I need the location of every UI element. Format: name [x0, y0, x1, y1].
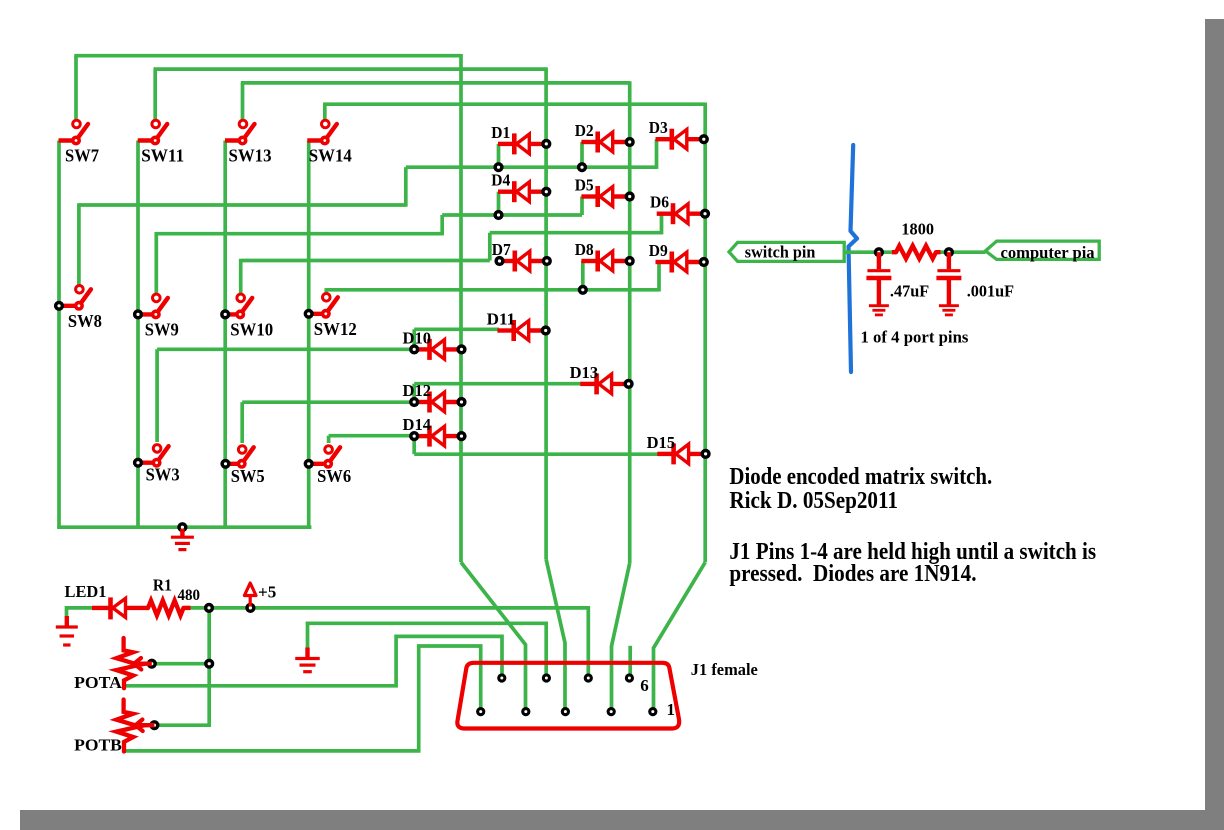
wire D7 to D6 link vertical	[488, 233, 492, 261]
wire SW10 row horizontal to D7	[241, 259, 490, 263]
wire top horizontal from SW11	[154, 67, 547, 71]
J1 pin 7	[542, 673, 551, 682]
svg-text:D14: D14	[403, 415, 432, 434]
junction POTA wiper to R1 column	[204, 659, 214, 669]
wire R1 to +5 rail and J1 pin 8 drop	[189, 608, 588, 679]
wire diagonal fan to J1 pin 3	[546, 559, 565, 712]
svg-text:480: 480	[178, 587, 201, 604]
junction POTA wiper node	[147, 659, 157, 669]
diode D6	[650, 193, 710, 225]
svg-text:D8: D8	[575, 240, 594, 259]
wire column D1/D7/D11 cathodes	[544, 67, 548, 559]
diode D15	[647, 433, 711, 465]
diode D3	[649, 118, 709, 150]
wire SW12 row horizontal to D8 D9	[326, 288, 659, 292]
junction D1 riser on row 1	[493, 162, 503, 172]
wire SW3 row horizontal to D10	[157, 347, 414, 351]
ground of LED1	[56, 616, 78, 645]
J1 pin 6	[625, 673, 634, 682]
diode D2	[575, 121, 635, 153]
POTA wiper arrow	[134, 658, 152, 670]
diode D9	[649, 241, 709, 273]
potentiometer POTA	[116, 638, 139, 688]
resistor 1800	[892, 250, 896, 254]
svg-text:6: 6	[640, 676, 649, 695]
wire top horizontal from SW7	[74, 54, 461, 58]
wire left column D SW14-SW12-SW6-ground bus	[307, 141, 311, 529]
svg-text:POTB: POTB	[74, 736, 122, 755]
wire diagonal fan to J1 pin 4	[612, 563, 630, 712]
diode D14	[403, 415, 467, 447]
wire D12 to D13 link vertical	[412, 384, 416, 404]
wire left column B SW11-SW9-SW3-ground bus	[136, 141, 140, 529]
svg-text:.001uF: .001uF	[967, 282, 1014, 301]
wire SW5 row horizontal to D12	[242, 400, 414, 404]
svg-text:D7: D7	[492, 240, 511, 259]
diode D12	[403, 381, 467, 413]
switch SW3	[133, 445, 180, 485]
svg-text:D6: D6	[650, 193, 669, 212]
diode D10	[403, 328, 467, 360]
svg-text:1 of 4 port pins: 1 of 4 port pins	[861, 328, 969, 347]
ground of J1 pin 7	[295, 648, 320, 672]
wire D14 to D15 link horizontal	[414, 452, 659, 456]
switch SW13	[225, 120, 272, 165]
svg-text:SW10: SW10	[230, 319, 273, 339]
svg-text:.47uF: .47uF	[890, 282, 929, 301]
wire column D2/D5/D8/D13 cathodes	[628, 81, 632, 563]
blue boundary squiggle line	[849, 145, 858, 372]
svg-text:Rick D. 05Sep2011: Rick D. 05Sep2011	[729, 488, 898, 514]
wire SW9 row horizontal	[156, 232, 442, 236]
diode D1	[491, 123, 551, 155]
ground of capacitor .001uF	[939, 305, 959, 315]
junction D2 riser on row 1	[577, 162, 587, 172]
wire D9 riser	[657, 262, 661, 292]
switch SW7	[59, 120, 100, 165]
wire SW5 riser	[240, 402, 244, 443]
svg-text:SW7: SW7	[65, 146, 99, 166]
switch SW11	[138, 120, 185, 165]
wire SW9 riser	[154, 232, 158, 294]
wire SW10 riser	[239, 259, 243, 294]
wire D5 riser	[580, 197, 584, 216]
potentiometer POTB	[116, 700, 139, 752]
connector J1 female DB9 outline	[457, 663, 679, 729]
svg-text:D5: D5	[575, 176, 594, 195]
wire left column A SW7-SW8-ground bus	[57, 141, 61, 529]
svg-text:D12: D12	[403, 381, 432, 400]
node arrow switch pin	[729, 242, 844, 261]
wire LED1 left lead and ground elbow	[67, 608, 94, 617]
svg-text:SW11: SW11	[141, 146, 184, 166]
capacitor .47uF	[866, 252, 929, 305]
wire SW9 row jog up	[440, 215, 444, 235]
wire SW11 riser	[153, 69, 157, 120]
wire SW7 riser to row-1 bus	[74, 56, 78, 120]
svg-text:R1: R1	[153, 576, 172, 595]
wire D1 riser	[497, 144, 501, 167]
ground of matrix bus	[171, 529, 194, 550]
wire SW8 riser	[77, 203, 81, 285]
wire POTA bottom to J1 pin 9	[124, 636, 502, 685]
svg-text:D10: D10	[403, 328, 432, 347]
svg-text:SW14: SW14	[309, 146, 352, 166]
svg-text:D3: D3	[649, 118, 668, 137]
wire D12 to D13 link horizontal	[414, 382, 582, 386]
switch SW6	[304, 446, 352, 486]
diode D5	[575, 176, 635, 208]
wire diagonal fan to J1 pin 2	[461, 562, 526, 712]
J1 pin 1	[648, 707, 657, 716]
J1 pin 8	[584, 673, 593, 682]
LED LED1	[92, 597, 149, 619]
page shadow right	[1205, 19, 1224, 830]
wire D14 to D15 link vertical	[412, 436, 416, 455]
wire row 2 horizontal to D4 D5	[442, 213, 582, 217]
wire D6 riser	[660, 214, 664, 235]
ground of capacitor .47uF	[869, 305, 889, 315]
svg-text:SW6: SW6	[317, 466, 351, 486]
svg-text:D4: D4	[491, 171, 510, 190]
power +5 arrow	[244, 583, 256, 607]
wire ground to J1 pin 7 rail	[308, 623, 547, 679]
wire SW14 riser	[323, 104, 327, 120]
svg-text:POTA: POTA	[74, 673, 123, 692]
svg-text:pressed. Diodes are 1N914.: pressed. Diodes are 1N914.	[729, 561, 976, 587]
svg-text:J1 female: J1 female	[691, 660, 758, 679]
wire D10 to D11 link horizontal	[414, 327, 499, 331]
switch SW12	[304, 294, 357, 339]
wire switch pin arrow to filter	[844, 250, 892, 254]
wire SW8 row jog up	[404, 167, 408, 207]
junction filter node at .47uF	[874, 247, 884, 257]
wire stub to J1 pin 6	[628, 646, 632, 679]
wire left column C SW13-SW10-SW5-ground bus	[223, 141, 227, 529]
wire POTA wiper to vertical	[152, 662, 209, 666]
svg-text:LED1: LED1	[65, 582, 107, 601]
junction ground bus tap	[177, 522, 187, 532]
diode D8	[575, 240, 635, 272]
resistor R1	[148, 601, 184, 616]
wire SW8 row horizontal	[79, 203, 406, 207]
junction +5 node	[245, 603, 255, 613]
J1 pin 3	[561, 707, 570, 716]
J1 pin 4	[607, 707, 616, 716]
svg-text:SW9: SW9	[145, 319, 179, 339]
wire D10 to D11 link vertical	[412, 329, 416, 351]
wire row 1 horizontal to D1 D2 D3	[406, 165, 657, 169]
junction D8 riser on SW12 row	[578, 285, 588, 295]
wire D4 riser	[497, 192, 501, 215]
svg-text:D9: D9	[649, 241, 668, 260]
diode D13	[570, 363, 634, 395]
wire SW12 riser	[324, 288, 328, 293]
wire D3 riser	[655, 139, 659, 169]
svg-text:SW13: SW13	[229, 146, 272, 166]
svg-text:D13: D13	[570, 363, 599, 382]
svg-text:SW8: SW8	[68, 311, 102, 331]
wire SW13 riser	[241, 83, 245, 120]
svg-text:SW5: SW5	[231, 466, 265, 486]
diode D11	[487, 310, 551, 342]
switch SW14	[307, 120, 352, 165]
svg-text:1: 1	[667, 700, 676, 719]
svg-text:computer pia: computer pia	[1001, 243, 1096, 262]
switch SW10	[220, 294, 273, 339]
svg-text:+5: +5	[258, 583, 276, 602]
svg-text:D1: D1	[491, 123, 510, 142]
node arrow computer pia	[986, 241, 1100, 259]
wire ground bus horizontal	[57, 525, 311, 529]
wire SW6 riser	[327, 436, 331, 443]
POTB wiper arrow	[136, 720, 155, 732]
wire D7 to D6 link horizontal	[490, 231, 662, 235]
wire SW3 riser	[155, 349, 159, 442]
svg-text:D15: D15	[647, 433, 676, 452]
wire D8 riser	[581, 261, 585, 290]
wire column from SW7 wire down (D10/D12/D14 cathode column)	[459, 54, 463, 562]
page shadow bottom	[20, 810, 1224, 830]
diode D4	[491, 171, 551, 203]
switch SW9	[133, 294, 179, 339]
wire diagonal fan to J1 pin 1	[654, 562, 706, 712]
svg-text:switch pin: switch pin	[745, 243, 816, 262]
switch SW5	[220, 446, 264, 486]
svg-text:1800: 1800	[901, 220, 934, 239]
wire POTB bottom to J1 pin 5	[124, 646, 481, 751]
switch SW8	[54, 286, 102, 331]
wire R1 junction down to POTB wiper	[154, 608, 209, 725]
wire filter to computer pia arrow	[940, 250, 986, 254]
diode D7	[492, 240, 552, 272]
wire top horizontal from SW14	[323, 102, 705, 106]
svg-text:SW3: SW3	[146, 465, 180, 485]
J1 pin 5	[476, 707, 485, 716]
J1 pin 9	[497, 673, 506, 682]
svg-text:D11: D11	[487, 310, 516, 329]
svg-text:D2: D2	[575, 121, 594, 140]
junction POTB wiper node	[149, 720, 159, 730]
wire D2 riser	[580, 142, 584, 167]
wire top horizontal from SW13	[241, 81, 630, 85]
wire SW6 row horizontal to D14	[329, 434, 415, 438]
junction D4 riser on row 2	[493, 210, 503, 220]
junction filter node at .001uF	[944, 247, 954, 257]
wire column D3/D6/D9/D15 cathodes	[703, 103, 707, 563]
J1 pin 2	[521, 707, 530, 716]
svg-text:Diode encoded matrix switch.: Diode encoded matrix switch.	[729, 464, 992, 490]
svg-text:SW12: SW12	[314, 319, 357, 339]
junction R1 output node	[204, 603, 214, 613]
capacitor .001uF	[936, 252, 1014, 305]
